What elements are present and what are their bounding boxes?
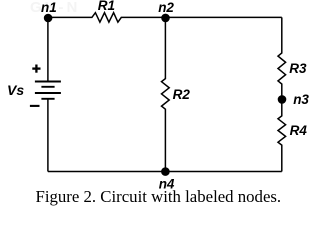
svg-text:Figure 2. Circuit with labeled: Figure 2. Circuit with labeled nodes.: [36, 187, 282, 206]
svg-text:R3: R3: [289, 61, 307, 76]
svg-text:R4: R4: [290, 123, 308, 138]
svg-text:Vs: Vs: [7, 82, 24, 98]
svg-text:n2: n2: [158, 0, 174, 15]
svg-text:n3: n3: [293, 92, 309, 107]
svg-text:n1: n1: [41, 0, 57, 15]
svg-text:R2: R2: [173, 87, 191, 102]
svg-text:R1: R1: [98, 0, 115, 13]
